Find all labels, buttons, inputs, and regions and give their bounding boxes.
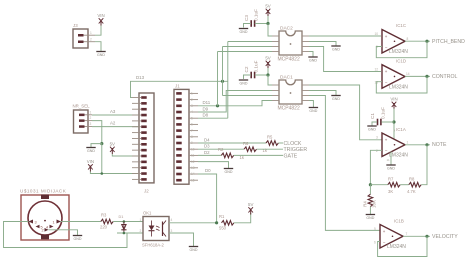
- svg-text:+: +: [385, 69, 388, 74]
- svg-text:CONTROL: CONTROL: [432, 74, 457, 80]
- svg-text:IC1D: IC1D: [396, 59, 406, 64]
- wire 5V down to junction: [267, 16, 269, 24]
- svg-text:−: −: [385, 148, 388, 153]
- wire C3 to ground: [244, 24, 252, 28]
- svg-text:−: −: [383, 240, 386, 245]
- wire net D8 (CS DAC2) from J1 to bus: [198, 117, 228, 119]
- ground at DAC2 VSS: [331, 46, 340, 51]
- svg-text:5: 5: [374, 227, 376, 231]
- wire R6 to TRIGGER: [257, 148, 284, 150]
- svg-text:5V: 5V: [265, 56, 270, 61]
- svg-text:R7: R7: [388, 176, 394, 181]
- svg-text:1: 1: [407, 141, 409, 145]
- wire MIDI pin1 to R3: [61, 221, 101, 223]
- header J1 (shield connector, right column): [174, 89, 198, 184]
- capacitor C1 bypass: [378, 119, 381, 126]
- svg-text:−: −: [385, 45, 388, 50]
- ground at C3: [239, 29, 248, 34]
- svg-text:3: 3: [35, 220, 37, 224]
- wire CS2 to DAC2 pin2: [228, 41, 272, 43]
- supply VIN feeding J2: [87, 159, 94, 172]
- svg-text:13: 13: [191, 166, 195, 170]
- svg-text:6: 6: [374, 241, 376, 245]
- svg-text:C2: C2: [244, 66, 249, 72]
- svg-text:3K: 3K: [388, 189, 393, 194]
- pin numbers IC1B: [374, 227, 408, 245]
- svg-text:14: 14: [191, 172, 195, 176]
- svg-text:6: 6: [191, 123, 193, 127]
- op-amp IC1A: [382, 133, 405, 157]
- svg-text:1: 1: [53, 220, 55, 224]
- svg-text:IC1B: IC1B: [394, 219, 404, 224]
- resistor R7: [388, 182, 400, 187]
- wire net D9 (CS DAC1) from J1 to DAC1 pin2: [198, 91, 272, 113]
- svg-text:8: 8: [407, 37, 409, 41]
- svg-text:11: 11: [191, 154, 195, 158]
- wire SCK to DAC1 pin3: [223, 95, 273, 97]
- svg-text:+: +: [385, 34, 388, 39]
- wire DAC2 LDAC to ground: [309, 52, 313, 57]
- wire C2 to ground: [244, 75, 252, 79]
- svg-text:+: +: [385, 138, 388, 143]
- svg-text:R5: R5: [267, 135, 273, 140]
- svg-text:0.1uF: 0.1uF: [381, 107, 386, 119]
- resistor R4 to ground: [368, 194, 373, 206]
- wire D1 cathode to optocoupler pin2: [117, 232, 143, 234]
- supply 5V pullup: [248, 202, 253, 215]
- capacitor C2 bypass: [251, 72, 254, 79]
- wire DAC2 VOUTB to IC1D input: [309, 47, 381, 72]
- svg-text:J2: J2: [144, 189, 149, 194]
- junction ground tee: [100, 142, 103, 145]
- svg-text:GND: GND: [332, 97, 340, 101]
- svg-text:4: 4: [191, 110, 193, 114]
- svg-text:11: 11: [387, 158, 390, 162]
- wire R2 to GATE: [234, 154, 283, 156]
- resistor R8: [409, 182, 421, 187]
- ground at DAC1 VSS: [331, 96, 340, 101]
- svg-text:GND: GND: [309, 109, 317, 113]
- wire C1 right to junction: [381, 121, 394, 123]
- svg-text:2: 2: [90, 38, 92, 42]
- svg-text:7: 7: [191, 129, 193, 133]
- svg-text:GND: GND: [97, 53, 105, 57]
- pin numbers IC1D: [375, 67, 410, 84]
- wire OK1 pin4 collector to D0 node: [169, 222, 217, 224]
- wire IC1D feedback loop: [376, 76, 427, 93]
- svg-text:D13: D13: [136, 75, 145, 80]
- wire IC1C feedback loop: [376, 41, 427, 58]
- svg-text:LM324N: LM324N: [389, 49, 408, 55]
- wire junction to DAC1 pin1: [268, 75, 272, 85]
- junction CONTROL: [425, 75, 428, 78]
- wire J3 pin1 to VIN: [95, 24, 101, 35]
- wire DAC1 VSS to ground: [309, 91, 336, 96]
- wire net D4 to resistor R5: [198, 142, 266, 144]
- junction VIN row: [101, 172, 104, 175]
- svg-text:DAC2: DAC2: [280, 26, 293, 32]
- svg-text:1: 1: [140, 218, 142, 222]
- svg-text:2: 2: [191, 98, 193, 102]
- svg-text:GND: GND: [190, 248, 198, 252]
- svg-text:R8: R8: [409, 176, 415, 181]
- svg-text:1: 1: [90, 31, 92, 35]
- svg-text:MCP4822: MCP4822: [278, 106, 300, 112]
- junction on SCK bus at D13: [221, 80, 224, 83]
- svg-text:D1: D1: [119, 215, 124, 219]
- svg-text:C1: C1: [370, 113, 375, 119]
- wire C2 to 5V rail junction: [255, 74, 268, 76]
- svg-text:D4: D4: [204, 138, 210, 143]
- wire MIDI pin2 to ground: [49, 230, 78, 235]
- wire IC1B feedback loop: [378, 236, 427, 256]
- pin numbers OK1: [140, 218, 173, 233]
- svg-text:CLOCK: CLOCK: [284, 141, 302, 147]
- svg-text:5V: 5V: [110, 142, 115, 147]
- svg-text:NOTE: NOTE: [432, 142, 447, 148]
- svg-text:VELOCITY: VELOCITY: [432, 234, 458, 240]
- MIDI pin 3: [29, 220, 37, 225]
- svg-text:LM324N: LM324N: [389, 84, 408, 90]
- svg-text:R4: R4: [363, 201, 368, 207]
- MIDI pin 4: [46, 225, 54, 230]
- wire net D0 (MIDI RX) down to optocoupler output: [198, 174, 217, 223]
- wire VIN stub to J2 row: [90, 172, 101, 174]
- wire IC1D output to CONTROL: [405, 75, 430, 77]
- svg-text:0.1uF: 0.1uF: [254, 9, 259, 21]
- ground at IC1A power: [386, 165, 395, 170]
- svg-text:R2: R2: [218, 147, 224, 152]
- svg-text:0.1uF: 0.1uF: [254, 60, 259, 72]
- svg-text:12: 12: [375, 67, 379, 71]
- pin numbers IC1A: [376, 129, 409, 163]
- svg-text:D9: D9: [203, 106, 209, 111]
- svg-text:VIN: VIN: [87, 159, 94, 164]
- wire 5V to J2: [112, 154, 139, 156]
- svg-text:10: 10: [375, 32, 379, 36]
- svg-text:1: 1: [191, 92, 193, 96]
- svg-text:LM324N: LM324N: [389, 153, 408, 159]
- ground at C1: [367, 126, 376, 131]
- connector SV1 NR_SEL: [74, 110, 93, 133]
- wire net D11 (SDI) from J1 to DAC1 pin4: [198, 101, 272, 106]
- junction gain network node: [369, 183, 372, 186]
- DAC2 IC body MCP4822: [279, 31, 302, 55]
- SPI bus vertical SDI: [217, 52, 219, 106]
- svg-text:PITCH_BEND: PITCH_BEND: [432, 39, 465, 45]
- junction D0 / R1 node: [215, 221, 218, 224]
- wire tee to ground symbol: [91, 144, 102, 147]
- svg-text:C3: C3: [244, 15, 249, 21]
- connector J3 (power input header): [73, 29, 95, 48]
- wire NR_SEL pin2 down to ground tee: [92, 121, 102, 144]
- capacitor C3 bypass: [251, 20, 254, 27]
- wire R4 to ground: [369, 207, 371, 214]
- DAC2 pin stubs: [272, 36, 309, 52]
- svg-text:J1: J1: [175, 84, 180, 89]
- svg-text:8: 8: [191, 135, 193, 139]
- svg-text:4: 4: [46, 225, 48, 229]
- supply VIN for op-amp power: [390, 97, 397, 110]
- svg-text:GND: GND: [240, 30, 248, 34]
- svg-text:GND: GND: [368, 127, 376, 131]
- svg-text:A3: A3: [110, 109, 116, 114]
- wire IC1B output to VELOCITY: [403, 235, 430, 237]
- svg-text:GND: GND: [225, 170, 233, 174]
- svg-text:GND: GND: [240, 81, 248, 85]
- svg-text:R3: R3: [101, 213, 107, 218]
- wire net D2 to resistor R2: [198, 154, 221, 156]
- wire R7 to R8: [400, 184, 409, 186]
- svg-text:3: 3: [90, 122, 92, 126]
- resistor R3: [101, 219, 113, 224]
- resistor R5: [266, 141, 278, 146]
- svg-text:4.7K: 4.7K: [407, 189, 416, 194]
- ground at OK1 emitter: [189, 247, 198, 252]
- DAC1 pin stubs: [272, 85, 309, 101]
- MIDI pin 5: [36, 225, 43, 230]
- svg-text:SFH618A-2: SFH618A-2: [142, 243, 165, 248]
- svg-text:550: 550: [219, 226, 227, 231]
- svg-text:IC1C: IC1C: [396, 23, 406, 28]
- wire node to R7: [370, 184, 387, 186]
- wire DAC2 VSS to ground: [309, 42, 336, 46]
- svg-text:R1: R1: [219, 214, 225, 219]
- wire tee down to VIN row: [102, 144, 139, 174]
- pin numbers J3: [90, 31, 92, 42]
- svg-text:3: 3: [191, 104, 193, 108]
- wire VIN to opamp V+ and C1: [393, 109, 395, 139]
- svg-text:A2: A2: [110, 121, 116, 126]
- ground at C2: [239, 80, 248, 85]
- wire DAC1 LDAC to ground: [309, 101, 313, 108]
- wire C1 left to ground: [372, 122, 377, 126]
- svg-text:NR_SEL: NR_SEL: [73, 104, 91, 109]
- svg-text:LM324N: LM324N: [387, 244, 406, 250]
- resistor R6: [244, 147, 256, 152]
- wire MIDI pin3 loop to optocoupler cathode: [4, 222, 128, 248]
- ground at DAC2 LDAC: [308, 57, 317, 62]
- svg-text:5V: 5V: [248, 202, 253, 207]
- svg-text:VIN: VIN: [390, 97, 397, 102]
- ground at DAC1 LDAC: [309, 108, 318, 113]
- svg-text:GND: GND: [87, 149, 95, 153]
- svg-text:7: 7: [406, 232, 408, 236]
- SPI bus vertical CS2: [227, 42, 229, 119]
- resistor R2: [221, 153, 233, 158]
- supply 5V feeding J2: [110, 142, 115, 155]
- svg-text:D3: D3: [204, 144, 210, 149]
- pin numbers NR_SEL: [90, 110, 92, 126]
- svg-text:J3: J3: [73, 23, 78, 28]
- junction 5V / C3 / DAC2 VDD: [266, 22, 269, 25]
- junction PITCH_BEND: [425, 40, 428, 43]
- ground at MIDI jack shield: [73, 236, 82, 241]
- wire DAC1 VOUTB to IC1B input: [309, 96, 380, 231]
- wire IC1A output to NOTE: [405, 144, 430, 146]
- svg-text:2: 2: [140, 229, 142, 233]
- wire DAC1 VOUTA to IC1A input: [309, 85, 382, 140]
- svg-text:IC1A: IC1A: [396, 127, 406, 132]
- resistor R1 pullup: [222, 221, 234, 226]
- supply VIN (top left): [97, 13, 104, 26]
- wire J3 pin2 to ground: [95, 42, 101, 51]
- wire IC1A inverting input to gain network: [370, 150, 382, 184]
- svg-text:VIN: VIN: [97, 13, 104, 18]
- SPI bus vertical SCK: [222, 47, 224, 96]
- junction SDI bus at D11: [216, 104, 219, 107]
- wire IC1C output to PITCH_BEND: [405, 40, 430, 42]
- svg-text:3: 3: [171, 229, 173, 233]
- svg-text:U$1031 MIDIJACK: U$1031 MIDIJACK: [20, 189, 67, 194]
- svg-text:220: 220: [100, 225, 108, 230]
- junction at D1 cathode: [123, 232, 126, 235]
- svg-text:14: 14: [406, 72, 410, 76]
- wire C3 to 5V rail junction: [255, 23, 268, 25]
- pin numbers IC1C: [375, 32, 409, 49]
- svg-text:GND: GND: [387, 166, 395, 170]
- svg-text:GND: GND: [74, 237, 82, 241]
- svg-text:5V: 5V: [265, 4, 270, 9]
- wire J1 ground pin: [198, 162, 229, 168]
- svg-text:−: −: [385, 80, 388, 85]
- op-amp IC1B: [380, 225, 403, 249]
- svg-text:2: 2: [376, 149, 378, 153]
- svg-text:D0: D0: [205, 168, 211, 173]
- wire net A3 from NR_SEL pin1 to J2: [92, 114, 139, 116]
- supply 5V for DAC1: [265, 56, 270, 69]
- svg-text:9: 9: [191, 141, 193, 145]
- diode D1: [121, 222, 126, 234]
- ground below NR_SEL: [86, 148, 95, 153]
- wire R8 feedback up to NOTE output: [421, 145, 427, 185]
- wire OK1 pin3 to ground: [169, 233, 194, 246]
- svg-text:12: 12: [191, 160, 195, 164]
- svg-text:OK1: OK1: [143, 211, 152, 216]
- svg-text:5: 5: [191, 116, 193, 120]
- svg-text:10: 10: [191, 147, 195, 151]
- wire net D13 from J2 pin1 to SPI bus: [131, 81, 228, 97]
- svg-text:DAC1: DAC1: [280, 75, 293, 81]
- wire R3 to D1 and optocoupler anode: [113, 221, 143, 223]
- svg-text:GND: GND: [309, 58, 317, 62]
- op-amp IC1D: [382, 65, 405, 89]
- MIDI DIN jack U$1 outline: [21, 195, 69, 241]
- svg-text:1: 1: [90, 110, 92, 114]
- op-amp IC1C: [382, 30, 405, 54]
- junction VELOCITY: [425, 235, 428, 238]
- wire net D3 to resistor R6: [198, 148, 244, 150]
- ground below J1 signal resistors: [224, 169, 233, 174]
- wire 5V down to DAC1 junction: [267, 68, 269, 75]
- junction 5V / C2 / DAC1 VDD: [266, 73, 269, 76]
- pin numbers J1: [191, 92, 195, 183]
- wire R1 to 5V: [234, 213, 251, 223]
- svg-text:GND: GND: [332, 47, 340, 51]
- wire node down to R4: [369, 185, 371, 195]
- MIDI pin 2: [42, 228, 49, 233]
- header J2 (shield connector, left column): [132, 93, 154, 183]
- optocoupler OK1: [143, 217, 169, 241]
- svg-text:2: 2: [90, 116, 92, 120]
- svg-text:2: 2: [42, 229, 44, 233]
- MIDI pin 1: [53, 220, 62, 225]
- junction at D1 anode: [123, 220, 126, 223]
- ground below J3: [96, 52, 105, 57]
- svg-text:R6: R6: [243, 141, 249, 146]
- ground below R4: [366, 215, 375, 220]
- wire junction to DAC2 pin1: [268, 24, 272, 37]
- junction C1 / VIN: [392, 120, 395, 123]
- DAC1 IC body MCP4822: [279, 80, 302, 104]
- wire R5 to CLOCK: [278, 142, 283, 144]
- wire SDI to DAC2 pin4: [218, 51, 273, 53]
- wire IC1A power pin to ground: [390, 152, 392, 165]
- junction NOTE: [425, 143, 428, 146]
- svg-text:D2: D2: [204, 150, 210, 155]
- svg-text:+: +: [383, 229, 386, 234]
- svg-text:D8: D8: [203, 113, 209, 118]
- svg-text:TRIGGER: TRIGGER: [284, 147, 308, 153]
- svg-text:15: 15: [191, 178, 195, 182]
- wire net A2 from NR_SEL pin3 to J2: [92, 126, 139, 128]
- svg-text:D11: D11: [203, 100, 211, 105]
- svg-text:MCP4822: MCP4822: [278, 57, 300, 63]
- svg-text:4: 4: [171, 218, 173, 222]
- svg-text:GATE: GATE: [284, 153, 298, 159]
- svg-text:GND: GND: [366, 216, 374, 220]
- svg-text:10K: 10K: [372, 200, 377, 208]
- wire DAC2 VOUTA to IC1C input: [309, 35, 381, 37]
- svg-text:3: 3: [376, 136, 378, 140]
- wire SCK to DAC2 pin3: [223, 46, 273, 48]
- supply 5V for DAC2: [265, 4, 270, 17]
